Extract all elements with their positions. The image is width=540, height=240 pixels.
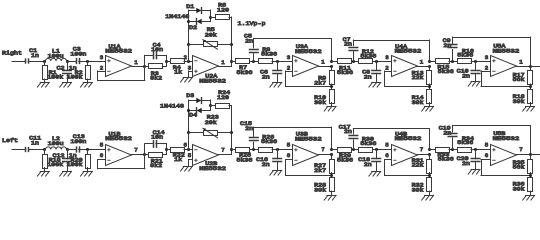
wire feedback U3B [286,160,332,176]
node junction [474,60,477,63]
svg-text:3: 3 [485,54,489,61]
node junction [276,60,279,63]
diode D1 1N4148 [186,3,210,13]
wire [79,149,106,151]
wire feedback U1A [98,66,145,81]
svg-text:100k: 100k [47,161,64,168]
capacitor C20 2n [457,150,480,170]
svg-text:5k36: 5k36 [360,52,377,59]
resistor R30 5k36 [359,135,392,152]
diode D3 1N4148 [186,92,210,103]
node junction [330,84,333,89]
svg-text:2n: 2n [364,161,372,168]
svg-text:39k: 39k [412,99,425,106]
wire [28,149,45,151]
svg-text:2: 2 [287,64,291,71]
resistor R12 5k36 [359,48,392,64]
wire feedback loop [254,39,332,62]
svg-text:3: 3 [385,54,389,61]
svg-text:D4: D4 [189,112,198,119]
op-amp U3A NE5532 [287,43,326,77]
node junction [330,173,333,178]
capacitor C1 1n [26,47,40,63]
node junction [276,148,279,151]
svg-text:2n: 2n [443,130,451,137]
svg-text:6: 6 [287,152,291,159]
label 1.1Vp-p [238,20,267,27]
op-amp U4A NE5532 [385,43,424,76]
svg-text:7: 7 [221,146,225,153]
wire input [12,149,26,151]
svg-text:39k: 39k [314,99,327,106]
capacitor C17 2n [339,124,358,150]
ground [468,82,480,87]
svg-text:6: 6 [385,152,389,159]
ground [60,172,72,177]
resistor R21 8k2 [145,153,167,170]
node junction [252,148,255,151]
svg-text:NE5532: NE5532 [199,77,226,84]
resistor R10 39k [314,90,334,107]
pin wire U1B output [132,154,145,156]
node junction [86,60,89,63]
svg-text:8k2: 8k2 [150,162,163,169]
wire [28,61,45,63]
resistor R20 100k [67,150,91,172]
svg-text:NE5532: NE5532 [295,48,322,55]
resistor R15 5k36 [429,59,457,76]
node junction [375,60,378,63]
resistor R27 2k7 [314,155,334,175]
svg-text:NE5532: NE5532 [395,48,422,55]
svg-text:D2: D2 [189,24,198,31]
resistor R2 100k [67,61,91,83]
node junction [451,60,454,63]
pin wire U5A output [517,66,531,68]
svg-text:39k: 39k [513,185,526,192]
node junction [529,65,532,68]
svg-text:2n: 2n [262,161,270,168]
svg-text:2: 2 [485,64,489,71]
capacitor C16 2n [256,150,282,171]
svg-text:1: 1 [420,58,424,65]
svg-text:56k: 56k [513,76,526,83]
svg-text:2n: 2n [245,125,253,132]
svg-text:100k: 100k [47,74,64,81]
svg-text:2n: 2n [344,41,352,48]
svg-text:1N4148: 1N4148 [160,103,185,110]
ground [523,107,535,112]
svg-text:NE5532: NE5532 [493,48,520,55]
resistor R29 5k36 [332,148,359,164]
svg-text:3: 3 [188,64,192,71]
wire output [530,66,540,68]
svg-text:2n: 2n [462,72,470,79]
svg-text:Left: Left [2,137,18,144]
node junction [230,148,233,151]
svg-text:Right: Right [2,49,22,56]
resistor R6 120 [210,1,231,19]
resistor R28 39k [314,178,334,196]
resistor R11 5k36 [332,59,359,77]
resistor R25 5k36 [232,148,259,164]
resistor R22 1k [166,148,192,164]
svg-text:5: 5 [385,142,389,149]
wire [67,149,77,151]
svg-text:NE5532: NE5532 [105,48,132,55]
svg-text:7: 7 [134,147,138,154]
svg-text:2n: 2n [245,37,253,44]
svg-text:39k: 39k [412,186,425,193]
svg-text:20k: 20k [205,119,218,126]
svg-text:100u: 100u [48,53,64,60]
svg-text:5k36: 5k36 [337,69,354,76]
wire rail right [187,106,233,155]
capacitor C12 1n [53,150,77,172]
svg-text:120: 120 [217,6,230,13]
wire feedback loop [453,37,531,66]
resistor R16 5k36 [457,47,490,63]
capacitor C13 100n [70,133,86,152]
node junction [428,148,431,156]
svg-text:D1: D1 [186,3,195,10]
capacitor C19 2n [439,125,457,150]
wire feedback U4A [385,71,430,87]
node junction [165,148,168,151]
svg-text:5k36: 5k36 [438,156,455,163]
resistor R4 1k [166,59,192,76]
svg-text:5k36: 5k36 [457,139,474,146]
svg-text:120: 120 [217,94,230,101]
node junction [66,148,69,151]
node junction [451,148,454,151]
svg-text:5k36: 5k36 [337,157,354,164]
node junction [43,60,46,63]
op-amp U1B NE5532 [100,130,139,165]
svg-text:5: 5 [485,142,489,149]
svg-text:NE5532: NE5532 [295,135,322,142]
svg-text:1: 1 [134,59,138,66]
wire feedback U5A [481,71,530,87]
node junction [165,60,168,63]
resistor R31 22k [412,155,432,174]
node junction [428,84,431,89]
svg-text:1n: 1n [31,52,39,59]
svg-text:1n: 1n [31,139,39,146]
resistor R17 56k [513,66,533,85]
svg-text:C2: C2 [57,64,66,71]
resistor R26 5k36 [259,134,293,153]
wire feedback U4B [385,160,430,176]
pin wire U3A output [319,66,332,68]
resistor R32 39k [412,178,432,196]
wire feedback loop [254,127,332,150]
svg-text:22k: 22k [412,74,425,81]
svg-text:C12: C12 [53,152,66,159]
svg-text:2: 2 [100,64,104,71]
resistor R13 22k [412,66,432,85]
pin wire U3B output [319,154,332,156]
node junction [529,153,532,156]
node junction [375,148,378,151]
capacitor C10 2n [457,61,480,81]
capacitor C5 2n [244,33,258,61]
resistor R24 120 [210,89,231,109]
svg-text:NE5532: NE5532 [395,135,422,142]
svg-text:100u: 100u [48,140,64,147]
node junction [352,60,355,63]
svg-text:1: 1 [221,59,225,66]
label 1N4148 [165,13,190,20]
svg-text:6: 6 [184,142,188,149]
op-amp U2B NE5532 [184,142,227,172]
svg-text:39k: 39k [513,98,526,105]
wire feedback loop [453,126,531,155]
svg-text:1k: 1k [174,156,183,163]
svg-text:2n: 2n [364,73,372,80]
pin wire U5B output [517,154,531,156]
svg-text:6: 6 [100,152,104,159]
svg-text:5k36: 5k36 [261,138,278,145]
potentiometer R5 20k [189,26,232,49]
wire feedback U1B [98,155,145,169]
ground [81,83,93,88]
ground [81,172,93,177]
resistor R7 5k36 [232,59,259,76]
wire rail diode pair right [209,10,212,22]
pin wire U4A output [417,66,429,68]
svg-text:5: 5 [188,152,192,159]
resistor R36 39k [513,178,533,196]
ground [324,196,336,201]
svg-text:7: 7 [519,146,523,153]
label 1N4148 [160,103,185,110]
node junction [330,148,333,156]
node junction [529,84,532,89]
ground [422,196,434,201]
resistor R19 100k [43,150,64,172]
svg-text:7: 7 [321,146,325,153]
ground [523,196,535,201]
svg-text:22k: 22k [412,162,425,169]
op-amp U5A NE5532 [485,43,524,77]
node junction [428,173,431,178]
capacitor C8 2n [362,61,380,83]
svg-text:2k7: 2k7 [314,167,327,174]
svg-text:NE5532: NE5532 [105,135,132,142]
svg-text:100k: 100k [67,74,84,81]
svg-text:39k: 39k [314,186,327,193]
svg-text:5k36: 5k36 [237,156,254,163]
wire rail left [188,100,190,150]
node junction [428,60,431,68]
svg-text:1.1Vp-p: 1.1Vp-p [238,20,267,27]
capacitor C7 2n [343,36,358,61]
svg-text:2: 2 [385,64,389,71]
node junction [66,60,69,63]
resistor R18 39k [513,90,533,107]
inductor L1 100u [46,48,67,61]
op-amp U5B NE5532 [485,130,524,165]
svg-text:2n: 2n [443,42,451,49]
node junction [330,60,333,68]
node junction [352,148,355,151]
wire feedback U5B [481,160,530,176]
svg-text:3: 3 [287,54,291,61]
pin wire U2B output [219,154,232,156]
node Left input label [2,137,18,144]
diode D4 1N4148 [189,108,211,119]
wire feedback U3A [286,71,332,87]
svg-text:100n: 100n [70,138,86,145]
node junction [143,65,146,68]
svg-text:10n: 10n [151,46,163,53]
svg-text:2n: 2n [462,160,470,167]
node junction [230,60,233,63]
svg-text:20k: 20k [205,31,218,38]
svg-text:NE5532: NE5532 [493,135,520,142]
inductor L2 100u [46,135,67,149]
capacitor C9 2n [443,37,457,61]
node junction [43,148,46,151]
ground [270,83,282,88]
wire rail right [187,17,233,66]
svg-text:8k2: 8k2 [150,75,163,82]
svg-text:1: 1 [321,58,325,65]
pin wire U4B output [417,154,429,156]
svg-text:5k36: 5k36 [360,140,377,147]
ground [181,167,193,172]
node junction [474,148,477,151]
svg-text:1N4148: 1N4148 [165,13,190,20]
op-amp U2A NE5532 [184,54,227,84]
svg-text:D3: D3 [186,92,195,99]
ground [468,170,480,175]
ground [324,107,336,112]
diode D2 1N4148 [189,19,211,32]
ground [37,172,49,177]
svg-text:5k36: 5k36 [237,69,254,76]
capacitor C11 1n [26,135,42,152]
pin wire U2A output [219,66,232,68]
wire rail left [188,10,190,61]
pin wire U2A +input to ground [189,71,193,78]
resistor R35 56k [513,155,533,174]
node junction [187,148,190,151]
svg-text:100k: 100k [67,161,84,168]
svg-text:5k36: 5k36 [438,68,455,75]
resistor R8 5k36 [259,46,293,63]
capacitor C15 2n [240,120,258,149]
svg-text:2: 2 [184,54,188,61]
svg-text:10n: 10n [151,134,163,141]
wire [79,61,106,63]
capacitor C6 2n [260,61,282,82]
ground [60,83,72,88]
capacitor C18 2n [358,150,380,172]
svg-text:5k36: 5k36 [261,51,278,58]
svg-text:5: 5 [287,142,291,149]
ground [422,107,434,112]
svg-text:7: 7 [420,146,424,153]
svg-text:3: 3 [100,54,104,61]
node junction [187,60,190,63]
svg-text:5k36: 5k36 [457,52,474,59]
ground [369,172,381,177]
resistor R1 100k [43,61,64,83]
svg-text:56k: 56k [513,164,526,171]
capacitor C3 100n [70,46,86,64]
svg-text:100n: 100n [70,50,86,57]
resistor R14 39k [412,90,432,107]
node junction [143,153,146,156]
node junction [252,60,255,63]
svg-text:2n: 2n [262,73,270,80]
node junction [529,173,532,178]
op-amp U3B NE5532 [287,131,326,166]
resistor R34 5k36 [457,135,490,153]
op-amp U4B NE5532 [385,131,424,166]
svg-text:2n: 2n [344,128,352,135]
resistor R9 2k7 [314,66,334,87]
resistor R33 5k36 [429,148,457,163]
wire output [530,154,540,156]
svg-text:1: 1 [519,58,523,65]
capacitor C4 10n [145,41,167,66]
svg-text:NE5532: NE5532 [199,165,226,172]
wire [67,61,77,63]
ground [37,83,49,88]
wire rail diode pair right [209,100,212,110]
ground [181,78,193,83]
potentiometer R23 20k [189,114,232,138]
op-amp U1A NE5532 [100,43,139,77]
capacitor C2 1n [57,61,77,83]
node junction [86,148,89,151]
pin wire U2B +input to ground [189,160,193,167]
ground [369,83,381,88]
ground [270,171,282,176]
svg-text:5: 5 [100,142,104,149]
resistor R3 8k2 [145,64,167,82]
capacitor C14 10n [145,129,167,155]
node Right input label [2,49,22,56]
svg-text:6: 6 [485,152,489,159]
svg-text:2k7: 2k7 [314,80,327,87]
pin wire U1A output [132,66,145,68]
svg-text:1k: 1k [174,69,183,76]
wire feedback loop [353,40,429,61]
wire input [12,61,26,63]
wire feedback loop [353,129,429,150]
